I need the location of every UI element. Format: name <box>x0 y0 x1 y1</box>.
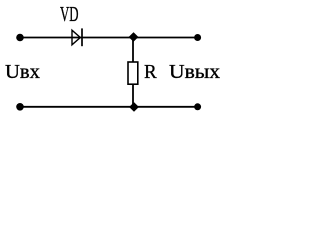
wire vertical branch <box>132 38 134 63</box>
diode VD <box>72 28 82 46</box>
terminal bottom-left <box>16 103 24 111</box>
label Uvx <box>5 62 40 82</box>
wire <box>132 84 134 107</box>
resistor R <box>128 62 138 84</box>
terminal top-right <box>194 34 201 41</box>
terminal bottom-right <box>194 103 201 110</box>
wire top <box>20 37 197 39</box>
label VD <box>60 4 79 25</box>
wire bottom <box>20 106 197 108</box>
terminal top-left <box>16 34 24 42</box>
label R <box>144 62 157 82</box>
junction node bottom <box>130 103 138 111</box>
label Uvyx <box>169 62 220 82</box>
junction node top <box>129 33 137 41</box>
